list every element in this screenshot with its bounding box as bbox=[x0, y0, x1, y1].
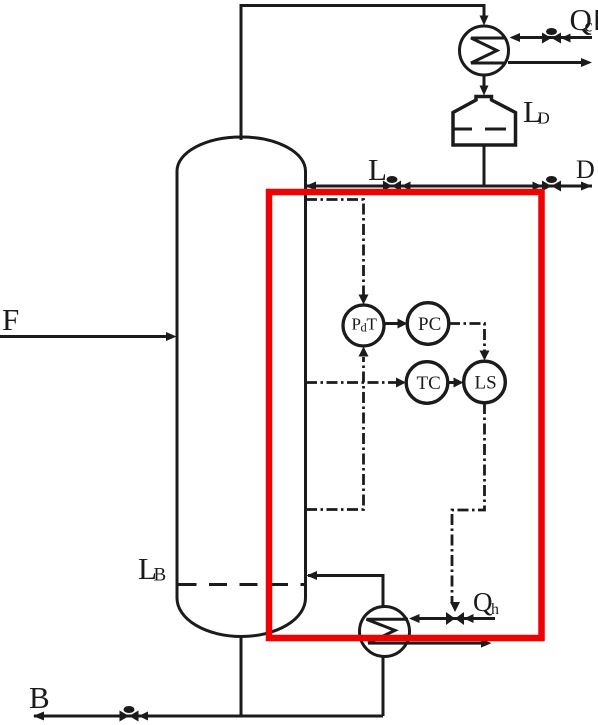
cut-off glyph at right edge bbox=[596, 10, 598, 30]
LS to Qh valve link bbox=[452, 403, 485, 603]
condenser to drum line bbox=[483, 75, 486, 87]
vapor return line to column bbox=[308, 576, 383, 607]
bottoms arrow left bbox=[33, 712, 44, 721]
reflux / distillate header bbox=[307, 185, 592, 188]
svg-text:h: h bbox=[491, 601, 499, 618]
reboiler coil zigzag bbox=[367, 619, 409, 643]
reboiler circle bbox=[360, 607, 410, 657]
drum outlet line bbox=[483, 145, 486, 186]
feed line F bbox=[0, 335, 166, 338]
drum level dashes bbox=[453, 128, 472, 131]
svg-text:B: B bbox=[154, 565, 167, 586]
reboiler outlet arrow right bbox=[481, 639, 492, 648]
valve on Qc line bbox=[542, 28, 571, 44]
condenser circle bbox=[460, 26, 509, 75]
svg-text:B: B bbox=[29, 680, 50, 715]
svg-text:T: T bbox=[367, 315, 378, 334]
arrow into condenser right bbox=[510, 33, 521, 42]
arrow into drum neck bbox=[480, 86, 489, 96]
bottoms level dashed line bbox=[179, 583, 305, 586]
arrow outlet right bbox=[581, 58, 592, 67]
distillation column bbox=[177, 137, 306, 637]
column bottom outlet bbox=[240, 636, 243, 716]
coolant inlet line Qc bbox=[513, 36, 592, 39]
instrument TC bbox=[406, 362, 448, 404]
arrow into LS left bbox=[454, 378, 464, 388]
feed arrow into column bbox=[166, 332, 177, 341]
condenser coil zigzag bbox=[471, 38, 506, 63]
reflux drum bbox=[453, 97, 516, 146]
instrument PC bbox=[407, 303, 449, 345]
svg-text:c: c bbox=[585, 16, 593, 36]
valve D bbox=[533, 176, 562, 192]
arrow into PdT bottom bbox=[359, 347, 369, 357]
valve Qh bbox=[446, 612, 474, 625]
instrument LS bbox=[464, 361, 506, 403]
arrow into reboiler right bbox=[409, 614, 420, 623]
reflux arrow into column bbox=[306, 182, 317, 191]
svg-text:LS: LS bbox=[475, 373, 497, 394]
pressure tap upper bbox=[306, 200, 364, 296]
TC to LS arrow line bbox=[448, 381, 454, 384]
PdT to PC arrow line bbox=[384, 322, 398, 325]
svg-text:L: L bbox=[368, 152, 387, 187]
control lines (dash-dot) bbox=[306, 200, 485, 604]
valve L bbox=[383, 176, 411, 192]
heating inlet line Qh bbox=[412, 617, 495, 620]
overhead vapor line bbox=[241, 6, 484, 141]
valve B bbox=[120, 706, 149, 722]
svg-text:D: D bbox=[576, 155, 595, 184]
svg-text:F: F bbox=[2, 302, 19, 337]
temperature tap bbox=[306, 381, 397, 384]
red highlight box bbox=[269, 192, 542, 638]
arrow into PC left bbox=[398, 319, 408, 329]
svg-text:PC: PC bbox=[418, 314, 441, 335]
pressure tap lower bbox=[306, 357, 364, 510]
arrow into TC left bbox=[396, 378, 406, 388]
reboiler riser bbox=[382, 657, 385, 716]
svg-text:D: D bbox=[538, 109, 550, 128]
coolant outlet line bbox=[508, 61, 581, 64]
svg-text:TC: TC bbox=[417, 373, 441, 394]
PC to LS link bbox=[449, 324, 485, 353]
instrument PdT bbox=[343, 305, 384, 346]
arrow into condenser top bbox=[480, 16, 489, 26]
arrow onto Qh valve bbox=[450, 602, 460, 612]
arrow into LS top bbox=[480, 351, 490, 361]
bottoms header line bbox=[34, 715, 383, 718]
distillate arrow right bbox=[581, 182, 592, 191]
svg-text:Q: Q bbox=[473, 587, 493, 617]
reboiler outlet line bbox=[368, 642, 481, 645]
vapor return arrow into column bbox=[307, 571, 318, 580]
arrow into PdT top bbox=[359, 295, 369, 305]
